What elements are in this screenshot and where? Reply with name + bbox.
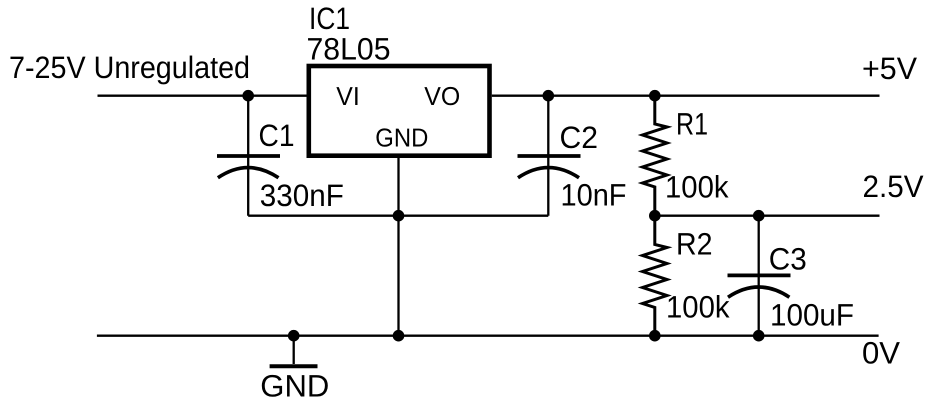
capacitor C2 curved plate (518, 168, 579, 178)
svg-text:R1: R1 (676, 107, 708, 142)
svg-text:330nF: 330nF (260, 178, 344, 213)
svg-text:C3: C3 (769, 241, 807, 276)
svg-text:GND: GND (375, 123, 428, 153)
wire: IC1 GND pin down to 0V rail (397, 156, 399, 336)
svg-text:VO: VO (424, 81, 460, 111)
capacitor C3 curved plate (728, 287, 789, 297)
svg-text:100k: 100k (666, 290, 730, 325)
IC IC1: 78L05 voltage regulator body (309, 66, 490, 156)
wire: input rail from left edge to IC1 VI pin (98, 95, 307, 97)
svg-text:100k: 100k (665, 170, 729, 205)
junction: R2 bottom (649, 330, 661, 342)
capacitor C3 vertical wire (758, 216, 760, 336)
wire: 0V bottom rail (97, 335, 879, 337)
capacitor C1 curved plate (218, 168, 279, 178)
capacitor C2 vertical wire (547, 96, 549, 216)
svg-text:7-25V Unregulated: 7-25V Unregulated (9, 50, 250, 85)
svg-text:C1: C1 (259, 118, 295, 153)
junction: R1/R2 divider node (649, 210, 661, 222)
svg-text:+5V: +5V (862, 51, 917, 86)
svg-text:0V: 0V (862, 335, 900, 370)
svg-text:2.5V: 2.5V (863, 169, 924, 204)
junction: IC1 GND pin on ground link (393, 210, 405, 222)
capacitor C2 top plate (518, 154, 581, 158)
capacitor C1 vertical wire (247, 96, 249, 216)
junction: R1 top (649, 90, 661, 102)
svg-text:10nF: 10nF (561, 177, 627, 212)
resistor R1 with zigzag body (643, 96, 668, 216)
junction: ground symbol tap (288, 330, 300, 342)
capacitor C3 top plate (728, 273, 791, 277)
svg-text:R2: R2 (676, 226, 713, 261)
resistor R2 with zigzag body (643, 216, 668, 336)
wire: C1 bottom to C2 bottom common ground link (248, 215, 548, 217)
svg-text:78L05: 78L05 (307, 31, 391, 66)
svg-text:VI: VI (336, 81, 360, 111)
svg-text:C2: C2 (560, 120, 599, 155)
ground: stem from 0V rail (293, 336, 295, 364)
capacitor C1 top plate (217, 154, 280, 158)
ground: bar (270, 364, 318, 368)
svg-text:GND: GND (260, 368, 329, 403)
junction: C3 bottom (753, 330, 765, 342)
svg-text:100uF: 100uF (770, 297, 854, 332)
junction: C2 top (543, 90, 555, 102)
wire: output rail from IC1 VO to +5V terminal (492, 95, 880, 97)
junction: IC1 GND at 0V rail (393, 330, 405, 342)
junction: input node / C1 top (242, 90, 254, 102)
junction: C3 top (753, 210, 765, 222)
wire: 2.5V rail (655, 215, 880, 217)
